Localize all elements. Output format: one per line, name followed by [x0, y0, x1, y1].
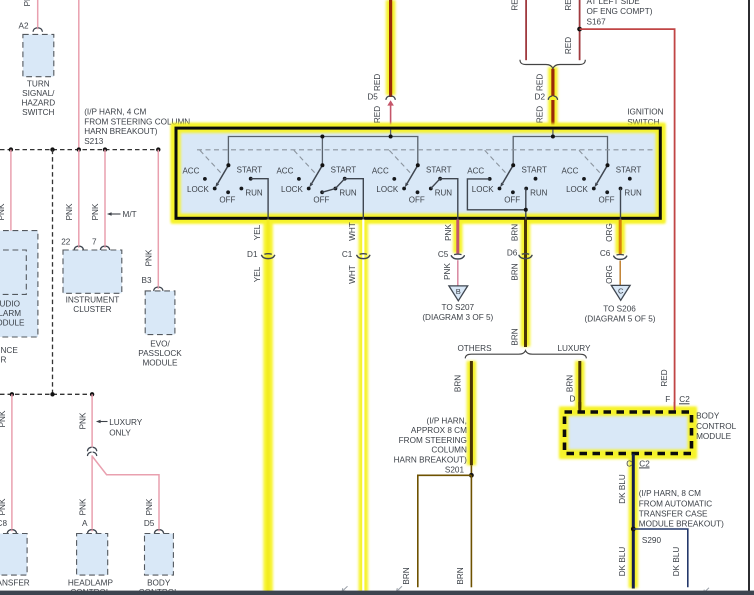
wire ORG C6	[619, 220, 622, 255]
svg-text:RED: RED	[564, 37, 573, 54]
small cursor mark	[397, 586, 403, 591]
svg-text:INSTRUMENT: INSTRUMENT	[66, 295, 120, 304]
wire PNK to instrument cluster pin 7	[104, 150, 106, 248]
svg-text:AT LEFT SIDE: AT LEFT SIDE	[587, 0, 641, 6]
wire BRN from S201 down	[470, 475, 472, 587]
svg-text:ORG: ORG	[605, 265, 614, 284]
svg-text:BRN: BRN	[454, 375, 463, 392]
svg-text:LOCK: LOCK	[281, 185, 303, 194]
wire PNK to evo/passlock module pin B3	[157, 150, 159, 289]
red arrow into ignition switch	[387, 100, 394, 105]
svg-text:BRN: BRN	[511, 328, 520, 345]
connector D5	[386, 96, 395, 99]
svg-text:A2: A2	[18, 22, 28, 31]
svg-text:ACC: ACC	[182, 167, 199, 176]
svg-text:R: R	[1, 355, 7, 364]
svg-text:ONLY: ONLY	[109, 429, 131, 438]
svg-text:TRANSFER CASE: TRANSFER CASE	[639, 510, 708, 519]
bus right	[513, 137, 607, 166]
svg-text:C6: C6	[600, 249, 611, 258]
svg-text:APPROX 8 CM: APPROX 8 CM	[411, 426, 467, 435]
svg-text:CONTROL: CONTROL	[696, 422, 736, 431]
ignition switch section 1 contacts	[203, 177, 207, 181]
svg-text:D5: D5	[144, 519, 155, 528]
svg-text:RUN: RUN	[530, 188, 548, 197]
ignition switch section 3 wiper	[407, 165, 418, 183]
svg-text:LOCK: LOCK	[472, 185, 494, 194]
svg-text:22: 22	[61, 237, 71, 246]
svg-text:SIGNAL/: SIGNAL/	[22, 89, 55, 98]
splice dashed link down	[52, 150, 54, 395]
svg-text:OTHERS: OTHERS	[457, 344, 492, 353]
svg-text:WHT: WHT	[348, 222, 357, 241]
svg-text:ACC: ACC	[276, 167, 293, 176]
wire PNK to instrument cluster pin 22	[78, 150, 80, 248]
svg-text:RED: RED	[535, 74, 544, 91]
connector D2	[548, 96, 557, 99]
svg-text:C: C	[626, 459, 632, 468]
connector pin 7	[100, 246, 109, 249]
mechanical linkage dashed	[197, 149, 655, 151]
svg-text:COLUMN: COLUMN	[431, 446, 467, 455]
splice S213 dashed bus	[0, 149, 158, 151]
section 2 links OFF-RUN-START, output to C1	[322, 179, 363, 220]
merge brace	[520, 60, 585, 69]
wire RED D2	[551, 69, 554, 96]
svg-text:D6: D6	[507, 248, 518, 257]
split brace	[465, 351, 586, 359]
svg-text:LOCK: LOCK	[376, 185, 398, 194]
svg-text:RED: RED	[564, 0, 573, 11]
wire WHT C1	[362, 220, 364, 593]
wire PNK branch to body module pin D5	[92, 457, 159, 532]
lower splice dashed bus	[0, 393, 92, 395]
svg-text:TO S207: TO S207	[441, 303, 474, 312]
svg-text:START: START	[426, 165, 452, 174]
body control module	[566, 414, 691, 454]
svg-text:RED: RED	[373, 74, 382, 91]
svg-text:TURN: TURN	[27, 79, 50, 88]
svg-text:RED: RED	[511, 0, 520, 11]
svg-text:OFF: OFF	[313, 195, 329, 204]
bus left junction nodes	[320, 135, 324, 139]
svg-text:MODULE BREAKOUT): MODULE BREAKOUT)	[639, 520, 724, 529]
svg-text:PNK: PNK	[443, 263, 452, 280]
ignition switch box	[176, 128, 660, 218]
svg-text:LUXURY: LUXURY	[109, 418, 143, 427]
node S167	[577, 27, 582, 32]
wire highlight glows	[176, 0, 692, 592]
ignition switch section 5 contacts	[582, 177, 586, 181]
svg-text:C2: C2	[639, 459, 650, 468]
svg-text:RUN: RUN	[624, 188, 642, 197]
svg-text:PNK: PNK	[145, 249, 154, 266]
svg-text:HEADLAMP: HEADLAMP	[68, 578, 114, 587]
ignition switch section 2 contacts	[297, 177, 301, 181]
svg-text:CLUSTER: CLUSTER	[73, 305, 111, 314]
svg-text:YEL: YEL	[253, 266, 262, 282]
svg-text:PNK: PNK	[0, 498, 7, 515]
svg-text:(I/P HARN,: (I/P HARN,	[427, 416, 467, 425]
svg-text:MODULE: MODULE	[696, 432, 732, 441]
svg-text:DK BLU: DK BLU	[672, 547, 681, 577]
wire PNK to headlamp module pin A	[91, 455, 93, 531]
svg-text:B3: B3	[141, 276, 151, 285]
svg-text:BRN: BRN	[456, 567, 465, 584]
connector A2	[33, 28, 42, 31]
wire PNK to transfer module pin C8	[11, 394, 13, 531]
svg-text:TO S206: TO S206	[603, 304, 636, 313]
wire YEL D1	[267, 220, 270, 593]
svg-text:S201: S201	[445, 466, 465, 475]
svg-text:PASSLOCK: PASSLOCK	[138, 349, 182, 358]
svg-text:C5: C5	[438, 250, 449, 259]
svg-text:DK BLU: DK BLU	[618, 474, 627, 504]
wire PNK C5	[456, 220, 459, 254]
svg-text:RED: RED	[535, 106, 544, 123]
ignition switch section 3 contacts	[392, 177, 396, 181]
ignition switch section 1 wiper	[218, 165, 229, 183]
svg-text:START: START	[521, 165, 547, 174]
svg-text:BODY: BODY	[147, 578, 171, 587]
wire DK BLU from BCM	[632, 454, 635, 589]
svg-text:PNK: PNK	[91, 203, 100, 220]
svg-text:OFF: OFF	[504, 195, 520, 204]
off-page triangle C	[611, 285, 630, 300]
svg-text:BRN: BRN	[511, 224, 520, 241]
svg-text:A: A	[82, 519, 88, 528]
svg-text:PNK: PNK	[78, 412, 87, 429]
svg-text:MODULE: MODULE	[0, 319, 25, 328]
wire BRN luxury branch to BCM pin D	[578, 361, 581, 410]
section 1 output to D1	[251, 179, 268, 220]
section 3 link RUN-START, output to C5	[431, 179, 458, 220]
svg-text:DK BLU: DK BLU	[618, 547, 627, 577]
luxury only arrow	[96, 420, 101, 423]
svg-text:ACC: ACC	[467, 167, 484, 176]
svg-text:HARN BREAKOUT): HARN BREAKOUT)	[84, 127, 158, 136]
connector pin 4	[6, 246, 15, 249]
svg-text:RED: RED	[660, 369, 669, 386]
wire RED to body control module pin F	[580, 29, 675, 410]
svg-text:S290: S290	[642, 536, 662, 545]
svg-text:S167: S167	[587, 17, 607, 26]
svg-text:IGNITION: IGNITION	[627, 107, 663, 116]
wire PNK to turn signal/hazard switch	[37, 0, 39, 29]
wire BRN others branch	[470, 361, 473, 465]
svg-text:HARN BREAKOUT): HARN BREAKOUT)	[394, 456, 468, 465]
svg-text:BRN: BRN	[511, 263, 520, 280]
inline connector pair	[88, 447, 97, 450]
svg-text:D: D	[569, 395, 575, 404]
wire PNK luxury branch	[91, 394, 93, 447]
svg-text:M/T: M/T	[123, 210, 137, 219]
wire DK BLU branch right	[633, 529, 688, 587]
headlamp control module	[77, 534, 108, 576]
section 5 output to C6	[620, 189, 622, 220]
wire BRN D6	[524, 220, 527, 348]
svg-text:YEL: YEL	[253, 224, 262, 240]
transfer case module box	[0, 534, 27, 576]
svg-text:B: B	[456, 287, 461, 296]
svg-text:RUN: RUN	[245, 188, 263, 197]
svg-text:START: START	[616, 165, 642, 174]
wire RED feed D5	[389, 0, 392, 97]
svg-text:7: 7	[92, 237, 97, 246]
svg-text:PNK: PNK	[78, 498, 87, 515]
wire RED pair right	[579, 0, 581, 60]
svg-text:(I/P HARN, 8 CM: (I/P HARN, 8 CM	[639, 489, 701, 498]
svg-text:ACC: ACC	[372, 167, 389, 176]
instrument cluster	[63, 250, 122, 293]
svg-text:PNK: PNK	[0, 410, 7, 427]
connector C8	[7, 530, 16, 533]
svg-text:PNK: PNK	[145, 498, 154, 515]
svg-text:FROM STEERING: FROM STEERING	[399, 436, 467, 445]
svg-text:RUN: RUN	[435, 188, 453, 197]
svg-text:D5: D5	[367, 93, 378, 102]
node S201	[469, 473, 474, 478]
body control module box bottom	[145, 534, 174, 576]
svg-text:D1: D1	[247, 250, 258, 259]
svg-text:SWITCH: SWITCH	[22, 108, 54, 117]
svg-text:S213: S213	[84, 137, 104, 146]
svg-text:BRN: BRN	[566, 375, 575, 392]
wire PNK to audio alarm module pin 4	[10, 150, 12, 248]
svg-text:PNK: PNK	[65, 203, 74, 220]
svg-text:WHT: WHT	[348, 265, 357, 284]
svg-text:OF ENG COMPT): OF ENG COMPT)	[587, 7, 653, 16]
svg-text:EVO/: EVO/	[150, 339, 170, 348]
bus right junction node	[551, 135, 555, 139]
svg-text:OFF: OFF	[219, 195, 235, 204]
connector pin 22	[74, 246, 83, 249]
viewport right border	[748, 0, 750, 591]
svg-text:PNK: PNK	[23, 0, 32, 6]
svg-text:PNK: PNK	[0, 203, 6, 220]
wire BRN from S201 left down	[418, 475, 472, 587]
svg-text:ALARM: ALARM	[0, 309, 21, 318]
svg-text:HAZARD: HAZARD	[21, 98, 55, 107]
svg-text:ANSFER: ANSFER	[0, 578, 30, 587]
svg-text:LOCK: LOCK	[566, 185, 588, 194]
svg-text:BODY: BODY	[696, 412, 720, 421]
svg-text:ORG: ORG	[605, 223, 614, 242]
svg-text:RUN: RUN	[339, 188, 357, 197]
ignition switch section 4 contacts	[488, 177, 492, 181]
wire RED pair left	[525, 0, 527, 60]
svg-text:LUXURY: LUXURY	[557, 344, 591, 353]
svg-text:NCE: NCE	[1, 346, 19, 355]
svg-text:MODULE: MODULE	[142, 358, 178, 367]
viewport bottom bar	[0, 591, 754, 595]
svg-text:OFF: OFF	[409, 195, 425, 204]
bus left	[228, 137, 417, 166]
node S290	[631, 527, 636, 532]
svg-text:AUDIO: AUDIO	[0, 300, 20, 309]
svg-text:(DIAGRAM 3 OF 5): (DIAGRAM 3 OF 5)	[422, 313, 493, 322]
svg-text:D2: D2	[535, 93, 546, 102]
svg-text:RED: RED	[373, 106, 382, 123]
M/T arrow	[107, 212, 112, 215]
evo/passlock module	[145, 291, 175, 335]
svg-text:ACC: ACC	[562, 167, 579, 176]
svg-text:C: C	[618, 286, 624, 295]
svg-text:F: F	[665, 395, 670, 404]
svg-text:(DIAGRAM 5 OF 5): (DIAGRAM 5 OF 5)	[585, 314, 656, 323]
ignition switch section 4 wiper	[503, 165, 514, 183]
ignition switch section 2 wiper	[312, 165, 323, 183]
svg-text:START: START	[237, 165, 263, 174]
svg-text:FROM AUTOMATIC: FROM AUTOMATIC	[639, 499, 712, 508]
wire PNK from top to S213	[78, 0, 80, 150]
audio alarm module inner box	[0, 250, 26, 294]
lower splice junction nodes	[10, 392, 14, 396]
svg-text:(I/P HARN, 4 CM: (I/P HARN, 4 CM	[84, 108, 146, 117]
svg-text:PNK: PNK	[444, 224, 453, 241]
svg-text:START: START	[331, 165, 357, 174]
svg-text:LOCK: LOCK	[187, 185, 209, 194]
svg-text:OFF: OFF	[599, 195, 615, 204]
audio alarm module outer box	[0, 231, 38, 337]
turn signal/hazard switch	[23, 34, 54, 76]
connector B3	[154, 287, 163, 290]
ignition switch section 5 wiper	[597, 165, 608, 183]
S213 junction nodes	[9, 147, 13, 151]
off-page triangle B	[449, 286, 468, 301]
svg-text:C2: C2	[679, 395, 690, 404]
small tick marks on bottom bar	[342, 586, 348, 591]
svg-text:C1: C1	[342, 250, 353, 259]
svg-text:C8: C8	[0, 519, 7, 528]
section 4 link ACC-RUN, output to D6	[467, 179, 525, 210]
svg-text:BRN: BRN	[402, 567, 411, 584]
